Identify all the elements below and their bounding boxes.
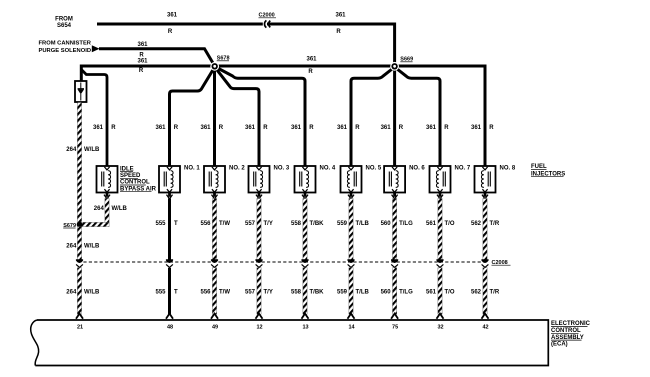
wire label 361 (bus, left of S678) [137,59,148,65]
svg-text:558: 558 [291,289,302,295]
svg-text:560: 560 [381,289,392,295]
connector C2008 halves (wire 556) [211,259,218,267]
label IDLE SPEED CONTROL BYPASS AIR [120,166,157,192]
label NO. 6 [409,166,425,172]
pin number 12 [256,324,262,330]
ECA pin 14 connector [348,314,355,319]
wire 361 R bus from diode branch through S678 and S669 to injector NO. 8 drop [81,66,485,166]
wire 555 T from injector NO. 1 to C2008 [167,193,173,260]
wire label 361 (injector NO. 7 feed) [426,125,437,131]
wire label 556 (above C2008) [200,221,211,227]
svg-text:562: 562 [471,221,482,227]
ECA pin 21 connector [76,314,83,319]
wire 264 W/LB from idle speed control to S679 [80,193,111,227]
svg-text:T/BK: T/BK [310,221,325,227]
svg-text:562: 562 [471,289,482,295]
connector C2008 halves (wire 562) [481,259,488,267]
fuel injector NO. 7 [430,166,451,193]
connector C2008 dashed separation line [78,261,487,263]
junction S679 [77,222,83,228]
svg-text:361: 361 [471,125,482,131]
wire label 562 (above C2008) [471,221,482,227]
connector C2008 halves (wire 561) [436,259,443,267]
label S679 [63,223,76,229]
wire label 561 (below C2008) [426,289,437,295]
svg-text:557: 557 [245,289,256,295]
wire label T/W (above C2008) [219,221,230,227]
wire label 560 (below C2008) [381,289,392,295]
label FROM S654 [55,17,73,30]
wire label T/R (above C2008) [490,221,500,227]
electronic control assembly (ECA) box [31,320,549,366]
label C2008 [492,260,511,266]
connector C2008 halves (wire 264) [76,259,83,267]
wire 556 T/W from injector NO. 2 to C2008 [212,193,218,260]
svg-text:T/W: T/W [219,221,230,227]
svg-text:W/LB: W/LB [84,244,100,250]
pin number 49 [212,324,218,330]
ECA pin 49 connector [211,314,218,319]
svg-text:R: R [309,125,314,131]
diode (idle speed control bypass air) [75,81,87,102]
svg-text:T: T [174,221,178,227]
pin number 32 [437,324,443,330]
wire 361 R feed to fuel injector NO. 3 [215,67,259,166]
wire 557 T/Y from C2008 to ECA pin 12 [257,268,261,314]
wire 560 T/LG from injector NO. 6 to C2008 [392,193,398,260]
wire label 361 (injector NO. 6 feed) [381,125,392,131]
junction S669 [390,62,399,71]
wire label W/LB (ISC wire) [112,206,128,212]
svg-text:NO. 5: NO. 5 [366,166,382,172]
svg-text:FROM: FROM [55,17,73,23]
wire label R (injector NO. 4 feed) [309,125,314,131]
wire 361 R feed to fuel injector NO. 2 [213,66,216,166]
wire label 264 (S679 to C2008) [66,244,77,250]
wire label T/R (below C2008) [490,289,500,295]
svg-text:561: 561 [426,289,437,295]
wire label R (injector NO. 8 feed) [489,125,494,131]
wire label 558 (above C2008) [291,221,302,227]
svg-text:T/LG: T/LG [399,221,413,227]
ECA pin 75 connector [391,314,398,319]
svg-text:W/LB: W/LB [112,206,128,212]
wire 361 R feed to fuel injector NO. 6 [393,66,396,166]
wire label 361 (cannister purge wire) [137,42,148,48]
wire label T/LG (below C2008) [399,289,413,295]
wire label 264 (diode wire) [66,147,77,153]
svg-text:264: 264 [94,206,105,212]
svg-text:361: 361 [291,125,302,131]
svg-text:R: R [308,69,313,75]
ECA pin 13 connector [302,314,309,319]
fuel injector NO. 8 [475,166,496,193]
svg-text:NO. 6: NO. 6 [409,166,425,172]
wire label T/LG (above C2008) [399,221,413,227]
pin number 13 [302,324,308,330]
svg-text:264: 264 [66,244,77,250]
wire label T/Y (below C2008) [264,289,273,295]
wire label T/W (below C2008) [219,289,230,295]
wire 264 W/LB from C2008 to ECA pin 21 [77,268,81,314]
svg-text:W/LB: W/LB [84,289,100,295]
svg-text:14: 14 [348,324,355,330]
wire 361 R from cannister purge solenoid to S678 [99,49,215,66]
label NO. 7 [455,166,471,172]
wire label 361 (injector NO. 1 feed) [155,125,166,131]
label NO. 5 [366,166,382,172]
svg-text:T/LB: T/LB [356,289,370,295]
wire label 361 (bus, S678 to S669) [306,57,317,63]
wire label T (below C2008) [174,289,178,295]
wire label 361 (ISC branch) [93,125,104,131]
svg-text:W/LB: W/LB [84,147,100,153]
wire label 555 (above C2008) [155,221,166,227]
wire label R (top feed, left of C2000) [168,29,173,35]
svg-text:264: 264 [66,147,77,153]
svg-text:R: R [174,125,179,131]
connector C2008 halves (wire 558) [301,259,308,267]
svg-text:(ECA): (ECA) [551,342,568,348]
svg-text:361: 361 [306,57,317,63]
svg-text:T/R: T/R [490,221,500,227]
svg-text:S654: S654 [57,23,72,29]
wire label R (bus, left of S678) [139,68,144,74]
fuel injector NO. 5 [341,166,362,193]
svg-text:559: 559 [337,221,348,227]
ECA pin 42 connector [482,314,489,319]
svg-text:361: 361 [137,59,148,65]
wire 264 W/LB from S679 to C2008 [77,227,81,260]
svg-text:PURGE SOLENOID: PURGE SOLENOID [39,48,92,54]
label NO. 2 [229,166,245,172]
svg-text:R: R [168,29,173,35]
svg-text:R: R [355,125,360,131]
wire 558 T/BK from injector NO. 4 to C2008 [302,193,308,260]
svg-text:361: 361 [137,42,148,48]
arrow from cannister purge solenoid [92,45,100,52]
label FUEL INJECTORS [531,164,565,177]
label NO. 8 [500,166,516,172]
svg-text:555: 555 [155,289,166,295]
svg-text:T/W: T/W [219,289,230,295]
wire 559 T/LB from injector NO. 5 to C2008 [348,193,354,260]
wire label R (injector NO. 5 feed) [355,125,360,131]
svg-text:264: 264 [66,289,77,295]
connector C2008 halves (wire 560) [391,259,398,267]
wire label R (bus, S678 to S669) [308,69,313,75]
pin number 42 [482,324,488,330]
connector C2008 halves (wire 559) [347,259,354,267]
label NO. 3 [274,166,290,172]
svg-text:13: 13 [302,324,308,330]
svg-text:557: 557 [245,221,256,227]
wire 562 T/R from injector NO. 8 to C2008 [482,193,488,260]
wire 361 R feed to fuel injector NO. 4 [215,67,305,167]
svg-text:361: 361 [167,12,178,18]
wire label 558 (below C2008) [291,289,302,295]
svg-text:R: R [111,125,116,131]
wire label T/Y (above C2008) [264,221,273,227]
svg-text:T/Y: T/Y [264,289,273,295]
wire 555 T from C2008 to ECA pin 48 [168,268,171,314]
svg-text:T/BK: T/BK [310,289,325,295]
wire label 264 (to pin 21) [66,289,77,295]
fuel injector NO. 3 [249,166,270,193]
label NO. 1 [184,166,200,172]
wire label R (injector NO. 6 feed) [399,125,404,131]
wire label 555 (below C2008) [155,289,166,295]
wire 361 R feed to fuel injector NO. 1 [170,67,215,166]
wire label 556 (below C2008) [200,289,211,295]
pin number 21 [77,324,83,330]
wire label T/LB (above C2008) [356,221,370,227]
wire label 557 (above C2008) [245,221,256,227]
wire label W/LB (diode wire) [84,147,100,153]
pin number 14 [348,324,355,330]
svg-text:361: 361 [200,125,211,131]
svg-text:R: R [399,125,404,131]
wire label R (injector NO. 7 feed) [444,125,449,131]
svg-text:361: 361 [337,125,348,131]
wire label T/LB (below C2008) [356,289,370,295]
wire label T/O (below C2008) [445,289,455,295]
label S669 [400,57,413,63]
wire branch to idle speed control bypass air [81,70,107,167]
svg-text:NO. 1: NO. 1 [184,166,200,172]
wire label T (above C2008) [174,221,178,227]
wire 556 T/W from C2008 to ECA pin 49 [212,268,216,314]
wire label W/LB (to pin 21) [84,289,100,295]
svg-text:T/O: T/O [445,221,455,227]
svg-text:361: 361 [245,125,256,131]
wire label 264 (ISC wire) [94,206,105,212]
wire 559 T/LB from C2008 to ECA pin 14 [349,268,353,314]
connector C2008 halves (wire 557) [255,259,262,267]
svg-text:R: R [219,125,224,131]
wire 264 W/LB from diode to S679 [77,103,81,223]
svg-text:32: 32 [437,324,443,330]
wire 561 T/O from injector NO. 7 to C2008 [437,193,443,260]
wire label W/LB (S679 to C2008) [84,244,100,250]
wire 361 R feed to fuel injector NO. 7 [395,67,440,166]
svg-text:75: 75 [392,324,398,330]
wire label 561 (above C2008) [426,221,437,227]
svg-text:T/O: T/O [445,289,455,295]
wire label 559 (below C2008) [337,289,348,295]
wire label R (injector NO. 3 feed) [263,125,268,131]
wire label 361 (injector NO. 4 feed) [291,125,302,131]
svg-text:361: 361 [426,125,437,131]
junction S678 [210,62,219,71]
wire label 361 (injector NO. 5 feed) [337,125,348,131]
wire label 361 (top feed, left of C2000) [167,12,178,18]
svg-text:12: 12 [256,324,262,330]
wire 561 T/O from C2008 to ECA pin 32 [438,268,442,314]
wire label 361 (injector NO. 3 feed) [245,125,256,131]
svg-text:556: 556 [200,221,211,227]
pin number 48 [167,324,173,330]
svg-text:49: 49 [212,324,218,330]
svg-text:R: R [263,125,268,131]
fuel injector NO. 1 [159,166,180,193]
fuel injector NO. 2 [204,166,225,193]
svg-text:R: R [336,29,341,35]
fuel injector NO. 4 [295,166,316,193]
wire label T/BK (above C2008) [310,221,325,227]
wire label 560 (above C2008) [381,221,392,227]
wire 361 R feed to fuel injector NO. 5 [351,67,395,166]
svg-text:R: R [489,125,494,131]
svg-text:556: 556 [200,289,211,295]
svg-text:559: 559 [337,289,348,295]
wire label 562 (below C2008) [471,289,482,295]
wire label R (injector NO. 2 feed) [219,125,224,131]
svg-text:R: R [444,125,449,131]
connector C2000 [259,13,277,28]
wire 558 T/BK from C2008 to ECA pin 13 [303,268,307,314]
wire label 361 (top feed, right of C2000) [335,12,346,18]
wire label R (injector NO. 1 feed) [174,125,179,131]
svg-text:560: 560 [381,221,392,227]
svg-text:NO. 8: NO. 8 [500,166,516,172]
svg-text:T: T [174,289,178,295]
svg-text:T/LG: T/LG [399,289,413,295]
wire 361 R from S654 through C2000 to S669 (top feed) [97,24,395,66]
ECA pin 12 connector [256,314,263,319]
svg-text:NO. 2: NO. 2 [229,166,245,172]
svg-text:558: 558 [291,221,302,227]
wire label R (top feed, right of C2000) [336,29,341,35]
solenoid U1 idle speed control bypass air [97,166,118,193]
svg-text:48: 48 [167,324,173,330]
svg-text:R: R [139,68,144,74]
svg-text:361: 361 [155,125,166,131]
wire 560 T/LG from C2008 to ECA pin 75 [393,268,397,314]
svg-text:361: 361 [93,125,104,131]
svg-text:555: 555 [155,221,166,227]
svg-text:NO. 7: NO. 7 [455,166,471,172]
wire label R (cannister purge wire) [139,53,144,59]
wire label 361 (injector NO. 8 feed) [471,125,482,131]
label ELECTRONIC CONTROL ASSEMBLY (ECA) [551,321,591,347]
wire label 559 (above C2008) [337,221,348,227]
label NO. 4 [320,166,336,172]
svg-text:21: 21 [77,324,83,330]
svg-text:361: 361 [381,125,392,131]
wire label T/O (above C2008) [445,221,455,227]
svg-text:NO. 4: NO. 4 [320,166,336,172]
wire label 361 (injector NO. 2 feed) [200,125,211,131]
svg-text:T/LB: T/LB [356,221,370,227]
svg-text:NO. 3: NO. 3 [274,166,290,172]
svg-text:FROM CANNISTER: FROM CANNISTER [39,41,92,47]
svg-text:T/R: T/R [490,289,500,295]
wire label 557 (below C2008) [245,289,256,295]
label FROM CANNISTER PURGE SOLENOID [39,41,92,55]
ECA pin 48 connector [166,314,173,319]
label S678 [217,56,230,62]
connector C2008 halves (wire 555) [166,259,173,267]
svg-text:T/Y: T/Y [264,221,273,227]
wire label T/BK (below C2008) [310,289,325,295]
wire 562 T/R from C2008 to ECA pin 42 [483,268,487,314]
svg-text:561: 561 [426,221,437,227]
svg-text:42: 42 [482,324,488,330]
wire label R (ISC branch) [111,125,116,131]
svg-text:361: 361 [335,12,346,18]
pin number 75 [392,324,398,330]
ECA pin 32 connector [437,314,444,319]
fuel injector NO. 6 [384,166,405,193]
wire 557 T/Y from injector NO. 3 to C2008 [256,193,262,260]
